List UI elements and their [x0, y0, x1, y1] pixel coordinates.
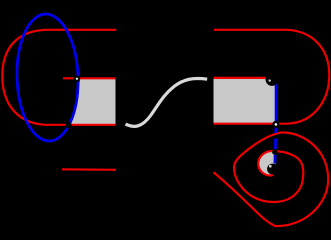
red segment behind middle sheet (lower left) [62, 168, 116, 171]
white-centered dot on left band top edge [74, 75, 81, 82]
red top edge of left band [63, 77, 116, 79]
black bump at right band top-right corner [266, 73, 279, 86]
white-centered dot on right band bottom edge [272, 121, 279, 128]
blue dashed line below right band [274, 128, 277, 134]
gray squiggle between bands [126, 78, 208, 126]
blue right edge of right band [275, 80, 278, 124]
black dot where blue ellipse crosses red bottom line [65, 122, 71, 128]
red outer loop, left half (top line, left cap, bottom line) [2, 30, 116, 125]
red outer loop, right half (top line, right cap, bottom line) [214, 30, 330, 124]
red spiral with left arm [214, 132, 329, 226]
left band (gray disk) [70, 79, 116, 125]
black dot on blue dashed line [272, 149, 277, 154]
red top edge of right band [214, 77, 268, 79]
blue ellipse (left circle) [15, 13, 80, 142]
right band (gray disk) [214, 79, 277, 125]
black blob at spiral center [267, 164, 278, 175]
membrane at spiral center (gray D) [258, 152, 275, 176]
